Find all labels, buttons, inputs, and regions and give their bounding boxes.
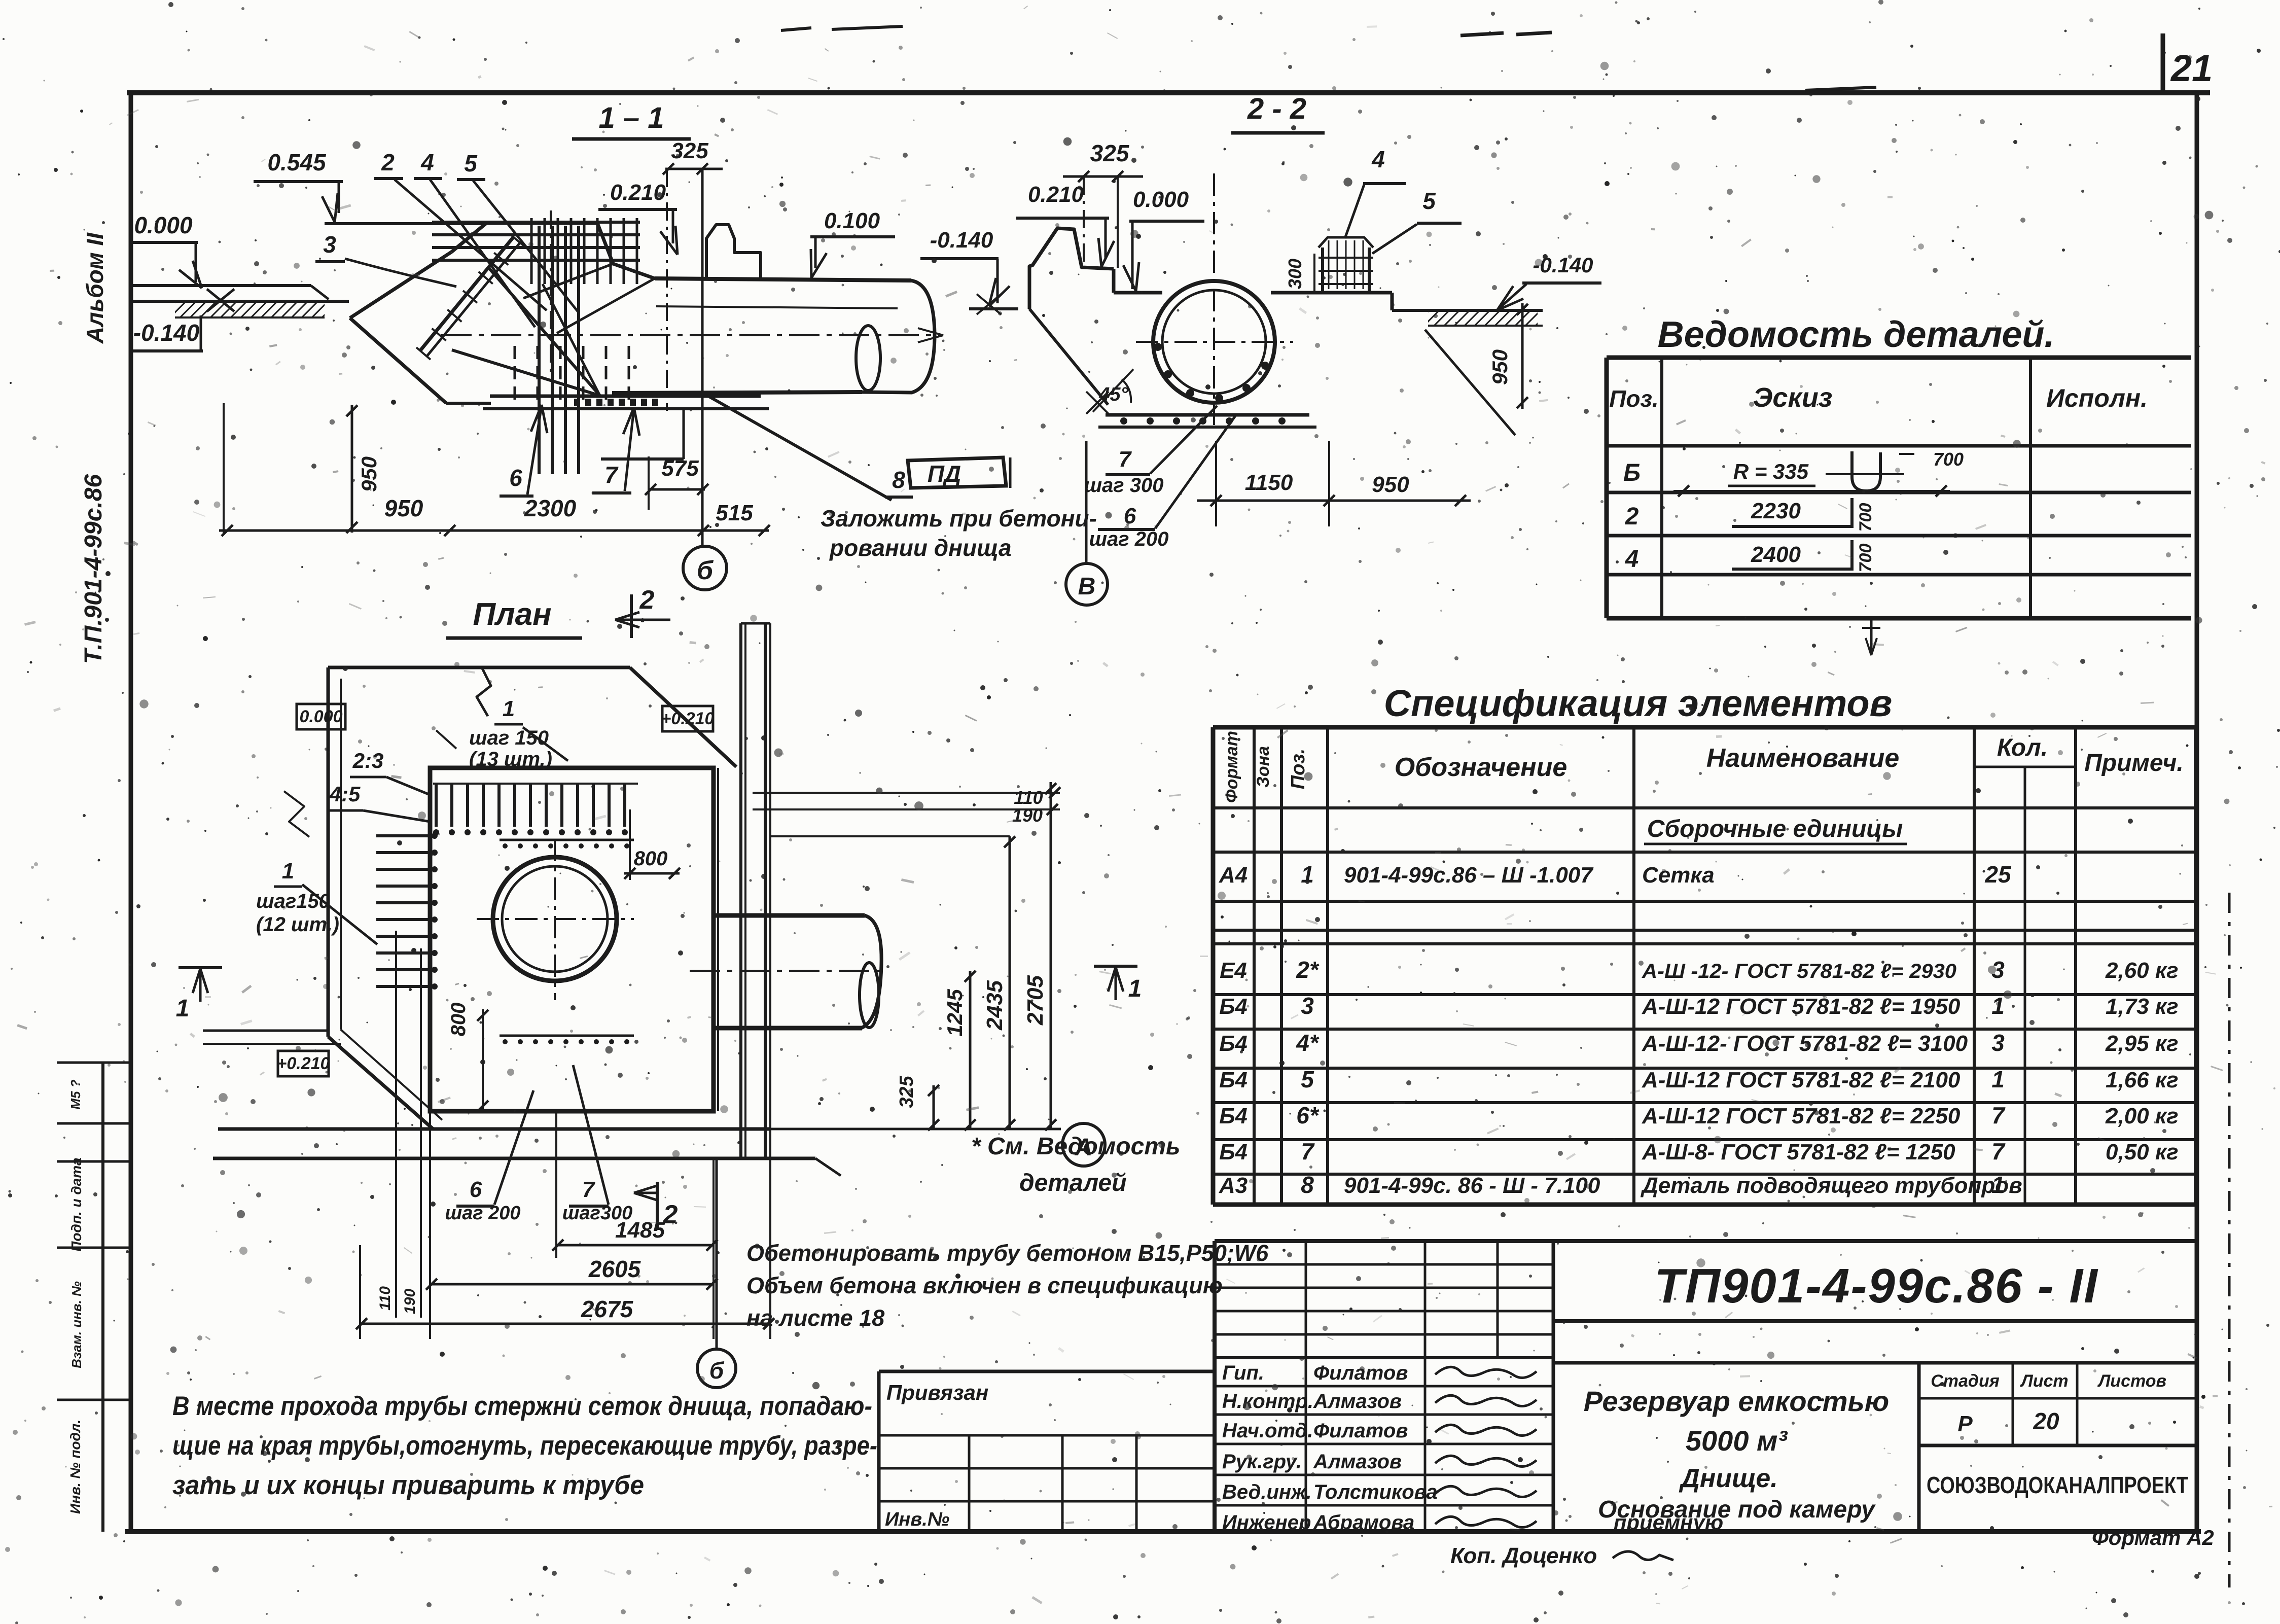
svg-text:А-Ш -12- ГОСТ 5781-82 ℓ= 2930: А-Ш -12- ГОСТ 5781-82 ℓ= 2930 [1642,960,1956,982]
svg-text:Заложить при бетони-: Заложить при бетони- [821,505,1097,532]
svg-text:Обозначение: Обозначение [1395,753,1567,782]
svg-text:5: 5 [1422,188,1436,214]
svg-text:Е4: Е4 [1220,958,1247,983]
svg-text:Поз.: Поз. [1609,385,1658,412]
svg-text:А-Ш-12 ГОСТ 5781-82 ℓ= 2250: А-Ш-12 ГОСТ 5781-82 ℓ= 2250 [1642,1104,1961,1128]
svg-text:21: 21 [2170,47,2213,89]
svg-text:7: 7 [1301,1138,1315,1164]
svg-text:А-Ш-12 ГОСТ 5781-82 ℓ= 1950: А-Ш-12 ГОСТ 5781-82 ℓ= 1950 [1642,994,1961,1019]
svg-text:Филатов: Филатов [1313,1362,1408,1384]
svg-text:575: 575 [661,456,699,481]
svg-text:Спецификация элементов: Спецификация элементов [1384,682,1893,724]
svg-text:Коп. Доценко: Коп. Доценко [1450,1543,1597,1568]
svg-text:Сборочные единицы: Сборочные единицы [1647,816,1903,842]
svg-text:4*: 4* [1296,1030,1320,1056]
svg-text:Алмазов: Алмазов [1313,1390,1402,1413]
svg-text:Зона: Зона [1254,746,1273,788]
svg-text:7: 7 [1119,447,1132,472]
svg-text:4:5: 4:5 [329,782,361,806]
svg-text:0.210: 0.210 [1028,182,1084,207]
svg-text:Абрамова: Абрамова [1313,1511,1414,1534]
svg-text:515: 515 [716,501,753,525]
svg-text:5: 5 [464,150,478,176]
svg-text:20: 20 [2033,1408,2059,1434]
svg-text:Р: Р [1957,1411,1973,1436]
svg-text:Вед.инж.: Вед.инж. [1222,1481,1312,1503]
svg-text:8: 8 [892,467,905,493]
svg-text:2: 2 [639,585,655,615]
svg-text:3: 3 [323,231,336,258]
svg-text:Примеч.: Примеч. [2084,750,2184,776]
svg-text:Т.П.901-4-99с.86: Т.П.901-4-99с.86 [80,474,107,664]
svg-text:2605: 2605 [588,1256,642,1282]
svg-text:Формат А2: Формат А2 [2092,1526,2214,1549]
svg-text:Объем бетона включен в специф: Объем бетона включен в спецификацию [746,1273,1223,1298]
svg-text:шаг 200: шаг 200 [1089,528,1168,550]
svg-text:шаг150: шаг150 [256,890,330,912]
svg-text:2400: 2400 [1751,542,1801,567]
svg-text:Инв. № подл.: Инв. № подл. [67,1420,83,1514]
svg-text:+0.210: +0.210 [661,709,715,728]
svg-text:7: 7 [582,1177,596,1202]
svg-text:110: 110 [377,1286,394,1311]
svg-text:Н.контр.: Н.контр. [1222,1390,1313,1413]
svg-text:325: 325 [896,1075,917,1108]
svg-text:4: 4 [1625,546,1639,573]
svg-text:7: 7 [1991,1102,2006,1128]
svg-text:4: 4 [1371,146,1385,172]
svg-text:7: 7 [604,462,619,488]
svg-text:1: 1 [1991,1066,2005,1092]
svg-text:2300: 2300 [524,495,577,521]
svg-text:(13 шт.): (13 шт.) [469,748,552,770]
svg-text:ровании днища: ровании днища [829,535,1012,561]
svg-text:950: 950 [1372,472,1409,497]
svg-text:190: 190 [402,1289,418,1314]
svg-text:б: б [697,556,714,585]
svg-text:7: 7 [1991,1138,2006,1164]
svg-text:Рук.гру.: Рук.гру. [1222,1451,1302,1473]
svg-text:1: 1 [176,995,190,1022]
svg-text:Исполн.: Исполн. [2046,384,2148,412]
svg-text:Формат: Формат [1222,731,1241,803]
svg-text:+0.210: +0.210 [277,1054,330,1073]
svg-text:950: 950 [1488,349,1512,385]
svg-text:325: 325 [1090,140,1130,166]
svg-text:6: 6 [509,465,522,491]
svg-text:Привязан: Привязан [886,1381,988,1404]
svg-text:Толстикова: Толстикова [1313,1481,1438,1503]
svg-text:Б4: Б4 [1219,994,1248,1019]
svg-text:Альбом II: Альбом II [82,232,108,344]
svg-text:Деталь подводящего трубопров: Деталь подводящего трубопров [1640,1173,2022,1198]
svg-text:СОЮЗВОДОКАНАЛПРОЕКТ: СОЮЗВОДОКАНАЛПРОЕКТ [1927,1472,2188,1498]
svg-text:8: 8 [1301,1172,1314,1198]
svg-text:Эскиз: Эскиз [1753,382,1833,413]
svg-text:Б4: Б4 [1219,1068,1248,1092]
svg-text:1,66 кг: 1,66 кг [2106,1068,2179,1092]
svg-text:6: 6 [470,1177,482,1202]
svg-text:Ведомость деталей.: Ведомость деталей. [1658,314,2055,355]
svg-text:190: 190 [1012,805,1043,826]
svg-text:901-4-99с. 86 - Ш - 7.100: 901-4-99с. 86 - Ш - 7.100 [1344,1173,1600,1198]
svg-text:Инженер: Инженер [1222,1511,1311,1534]
svg-text:2,60 кг: 2,60 кг [2105,958,2179,983]
svg-text:б: б [709,1357,725,1384]
svg-text:Б4: Б4 [1219,1104,1248,1128]
svg-text:Алмазов: Алмазов [1313,1451,1402,1473]
svg-text:950: 950 [384,495,423,521]
svg-text:А3: А3 [1219,1173,1248,1198]
svg-text:Кол.: Кол. [1997,734,2048,761]
svg-text:0.000: 0.000 [134,212,193,238]
svg-text:1: 1 [1991,1172,2005,1198]
svg-text:0.545: 0.545 [267,149,327,175]
svg-text:-0.140: -0.140 [1533,253,1593,277]
svg-text:-0.140: -0.140 [930,228,993,253]
svg-text:В месте прохода трубы стержни: В месте прохода трубы стержни сеток днищ… [172,1391,872,1421]
svg-text:4: 4 [420,149,434,175]
svg-text:Листов: Листов [2097,1371,2166,1391]
svg-text:2: 2 [663,1200,678,1229]
svg-text:5: 5 [1301,1066,1314,1092]
svg-text:приемную: приемную [1614,1510,1723,1534]
svg-text:Сетка: Сетка [1642,863,1715,888]
svg-text:шаг 300: шаг 300 [1084,474,1163,497]
svg-text:Обетонировать трубу бетоном В: Обетонировать трубу бетоном В15,Р50;W6 [746,1240,1269,1266]
svg-text:Гип.: Гип. [1222,1362,1264,1384]
svg-text:А4: А4 [1219,863,1248,888]
svg-text:0.100: 0.100 [824,208,880,233]
svg-text:Днище.: Днище. [1679,1464,1777,1493]
svg-text:* См. Ведомость: * См. Ведомость [971,1133,1181,1160]
svg-text:2,00 кг: 2,00 кг [2105,1104,2179,1128]
svg-text:2705: 2705 [1023,975,1048,1026]
svg-text:Резервуар емкостью: Резервуар емкостью [1584,1385,1889,1417]
svg-text:0.000: 0.000 [1133,187,1189,212]
svg-text:2675: 2675 [581,1296,634,1322]
svg-text:шаг300: шаг300 [562,1203,633,1224]
svg-text:700: 700 [1856,544,1875,573]
svg-text:0.000: 0.000 [299,707,342,726]
svg-text:1: 1 [282,859,294,884]
svg-text:700: 700 [1856,503,1875,532]
svg-text:Филатов: Филатов [1313,1420,1408,1442]
svg-text:2*: 2* [1296,957,1320,983]
svg-text:Нач.отд.: Нач.отд. [1222,1420,1313,1442]
svg-text:300: 300 [1285,259,1305,289]
svg-text:1 – 1: 1 – 1 [599,101,664,134]
svg-text:Наименование: Наименование [1706,744,1900,773]
svg-text:Б4: Б4 [1219,1140,1248,1164]
svg-text:800: 800 [447,1003,470,1037]
svg-text:2: 2 [1625,503,1639,530]
svg-text:2:3: 2:3 [352,749,384,772]
svg-text:Стадия: Стадия [1931,1371,2000,1391]
svg-text:2,95 кг: 2,95 кг [2105,1031,2179,1056]
svg-text:901-4-99с.86 – Ш -1.007: 901-4-99с.86 – Ш -1.007 [1344,863,1594,888]
svg-text:R = 335: R = 335 [1733,460,1809,483]
svg-text:М5 ?: М5 ? [68,1079,83,1109]
svg-text:Б: Б [1623,460,1641,486]
svg-text:325: 325 [671,138,708,163]
svg-text:А-Ш-12 ГОСТ 5781-82 ℓ= 2100: А-Ш-12 ГОСТ 5781-82 ℓ= 2100 [1642,1068,1961,1092]
svg-text:1150: 1150 [1245,470,1293,495]
svg-text:3: 3 [1991,1030,2005,1056]
svg-text:1: 1 [1128,975,1142,1002]
svg-text:Б4: Б4 [1219,1031,1248,1056]
svg-text:В: В [1078,573,1096,600]
svg-text:6: 6 [1124,504,1136,528]
svg-text:Поз.: Поз. [1288,749,1309,790]
svg-text:800: 800 [634,848,668,870]
svg-text:6*: 6* [1296,1102,1320,1128]
svg-text:Инв.№: Инв.№ [885,1509,949,1530]
svg-text:2230: 2230 [1751,499,1801,523]
svg-text:3: 3 [1301,993,1314,1019]
svg-text:Подп. и дата: Подп. и дата [68,1157,84,1251]
svg-text:деталей: деталей [1019,1170,1127,1196]
svg-text:1,73 кг: 1,73 кг [2106,994,2179,1019]
svg-text:25: 25 [1984,861,2012,888]
svg-text:Лист: Лист [2019,1371,2068,1391]
svg-text:щие на края трубы,отогнуть, пе: щие на края трубы,отогнуть, пересекающие… [172,1431,877,1461]
svg-text:0,50 кг: 0,50 кг [2106,1140,2179,1164]
svg-text:2435: 2435 [982,980,1007,1031]
svg-text:1: 1 [503,696,515,721]
svg-text:0.210: 0.210 [610,180,666,205]
svg-text:-0.140: -0.140 [133,320,200,346]
svg-text:ТП901-4-99с.86 - II: ТП901-4-99с.86 - II [1654,1259,2098,1313]
svg-text:700: 700 [1933,449,1964,470]
svg-text:ПД: ПД [928,461,961,487]
svg-text:(12 шт.): (12 шт.) [256,913,339,936]
svg-text:2: 2 [381,149,395,175]
svg-text:А-Ш-12- ГОСТ 5781-82 ℓ= 3100: А-Ш-12- ГОСТ 5781-82 ℓ= 3100 [1642,1031,1968,1056]
svg-text:5000 м³: 5000 м³ [1686,1425,1788,1457]
svg-text:А-Ш-8- ГОСТ 5781-82 ℓ= 1250: А-Ш-8- ГОСТ 5781-82 ℓ= 1250 [1642,1140,1955,1164]
svg-text:950: 950 [357,456,381,492]
svg-text:Взам. инв. №: Взам. инв. № [69,1281,84,1368]
svg-text:План: План [473,597,551,632]
svg-text:2 - 2: 2 - 2 [1247,92,1306,125]
svg-text:шаг 200: шаг 200 [445,1203,520,1224]
